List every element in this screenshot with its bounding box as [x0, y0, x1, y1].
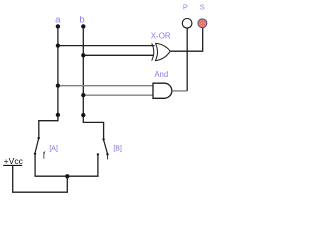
svg-text:X-OR: X-OR [151, 32, 171, 41]
svg-text:P: P [183, 3, 188, 12]
svg-text:+Vcc: +Vcc [4, 156, 24, 166]
svg-text:[A]: [A] [49, 145, 58, 152]
wire: a to AND input (grey) [58, 85, 153, 87]
wire: a vertical then to switch A top [39, 26, 58, 137]
AND output nub [172, 90, 174, 92]
wire: up to P indicator [186, 28, 188, 91]
svg-text:And: And [154, 70, 168, 79]
svg-text:a: a [55, 15, 61, 26]
wire: XOR output to S [170, 28, 203, 51]
node: Vcc rail junction [65, 174, 69, 178]
power +Vcc bar [3, 164, 22, 166]
svg-text:[B]: [B] [113, 145, 122, 152]
wire: b terminal dot [81, 24, 85, 28]
switch A [34, 137, 45, 159]
wire: Vcc to rail [13, 166, 68, 192]
wire: b to XOR input [83, 54, 153, 56]
wire: a terminal dot [56, 24, 60, 28]
AND gate U2 [153, 83, 172, 98]
wire: a to XOR input [58, 45, 155, 47]
node: a-XOR junction [56, 43, 60, 47]
XOR gate U1 [152, 43, 171, 60]
indicator S (lit) [198, 19, 207, 28]
node: a bottom junction [56, 113, 60, 117]
wire: b to AND input (grey) [83, 94, 152, 96]
wire: bottom rail connecting switch bottoms [35, 154, 98, 176]
wire: b vertical then to switch B top [83, 26, 103, 139]
node: a-AND junction [56, 83, 60, 87]
node: b-XOR junction [81, 53, 85, 57]
wire: AND output (grey) [172, 90, 187, 92]
indicator P (off) [182, 19, 192, 29]
node: b bottom junction [81, 113, 85, 117]
svg-text:b: b [79, 15, 84, 26]
svg-text:S: S [200, 3, 205, 12]
node: b-AND junction [81, 93, 85, 97]
switch B [97, 138, 109, 159]
